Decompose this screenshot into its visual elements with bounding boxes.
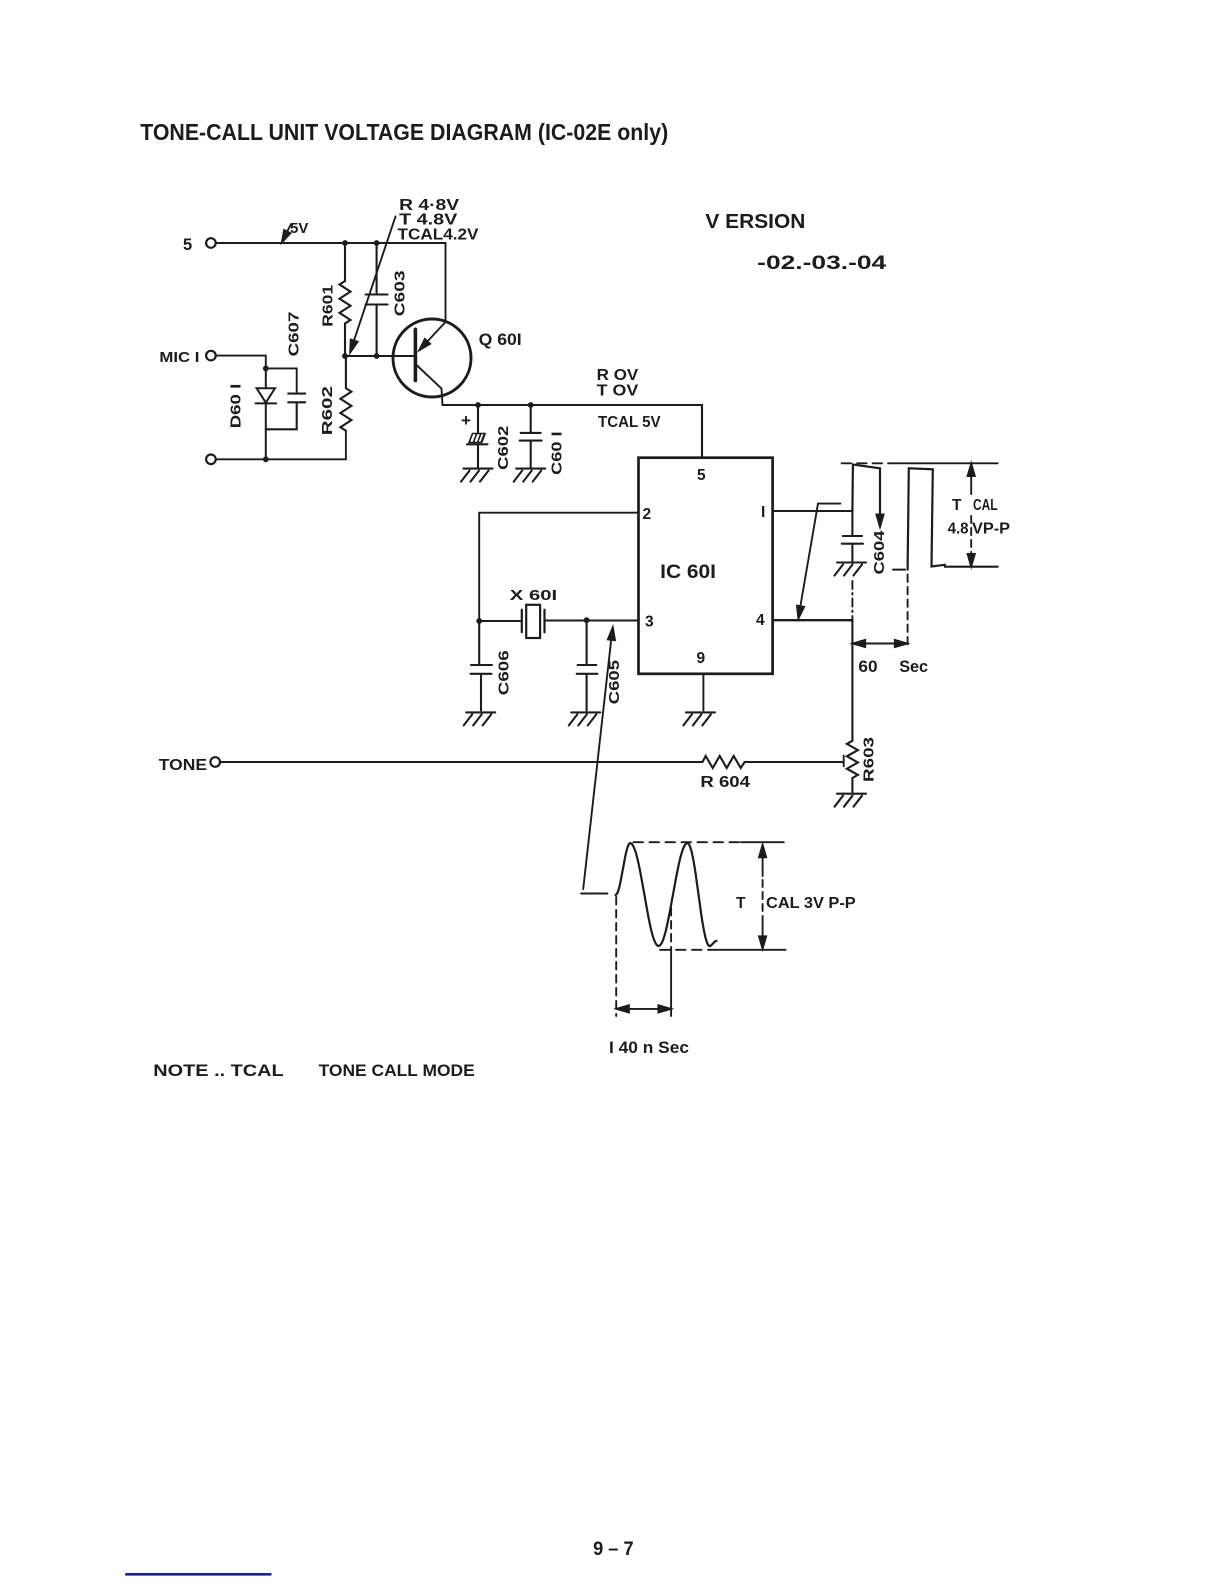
svg-text:5V: 5V	[290, 220, 308, 237]
ground C606	[464, 712, 496, 725]
svg-text:NOTE .. TCAL: NOTE .. TCAL	[153, 1062, 283, 1080]
ground C601	[514, 469, 546, 482]
svg-text:V ERSION: V ERSION	[705, 210, 805, 233]
svg-text:CAL: CAL	[973, 497, 998, 514]
ground C604	[835, 563, 867, 576]
node C601	[528, 402, 534, 408]
svg-text:MIC I: MIC I	[159, 349, 199, 366]
square wave low dash	[893, 569, 905, 571]
svg-text:C603: C603	[393, 271, 409, 317]
square wave top reference dashed	[842, 462, 895, 464]
arrow pointer to pin3 node	[583, 634, 612, 890]
svg-text:IC 60I: IC 60I	[660, 562, 716, 583]
resistor R602	[340, 356, 351, 431]
Q601 collector lead to output	[415, 364, 442, 405]
ground C602	[461, 469, 493, 482]
capacitor C604	[842, 511, 863, 561]
svg-text:2: 2	[643, 506, 652, 523]
capacitor C607	[266, 394, 305, 430]
measure arrow 140nSec	[620, 1008, 667, 1010]
svg-text:T: T	[736, 895, 746, 912]
Q601 base bar	[414, 329, 418, 380]
svg-text:TCAL4.2V: TCAL4.2V	[398, 227, 480, 244]
svg-text:5: 5	[697, 467, 706, 484]
sine bottom reference solid	[717, 949, 786, 951]
wire MIC1 to D601	[216, 356, 266, 369]
svg-text:R603: R603	[862, 737, 878, 782]
wire X601 left	[479, 620, 522, 622]
sine top reference dashed	[634, 841, 742, 843]
wire 5V rail	[216, 242, 446, 244]
dashed vertical 60sec right	[907, 574, 909, 648]
Q601 collector lead from 5V rail	[445, 243, 447, 322]
node C605 top	[584, 617, 590, 623]
svg-text:VP-P: VP-P	[972, 521, 1010, 538]
sine wave TCAL tone	[616, 843, 717, 946]
svg-text:TONE: TONE	[159, 757, 207, 774]
svg-text:I: I	[761, 504, 765, 521]
capacitor C606	[471, 621, 493, 711]
terminal MIC ground side	[206, 455, 216, 465]
svg-text:9 – 7: 9 – 7	[593, 1539, 634, 1560]
terminal TONE	[210, 757, 220, 767]
sine top reference solid	[741, 841, 784, 843]
capacitor C602 (electrolytic)	[477, 405, 479, 433]
wire pin2	[479, 513, 638, 621]
capacitor C603	[366, 243, 388, 356]
svg-text:R OV: R OV	[597, 367, 639, 384]
terminal MIC1	[206, 351, 216, 361]
svg-text:R601: R601	[321, 285, 337, 327]
arrow pointer to pin4	[800, 504, 841, 610]
wire X601 right to pin3	[545, 620, 639, 622]
ground R603	[835, 794, 867, 807]
node C603 top	[374, 240, 380, 246]
capacitor C605	[577, 620, 598, 710]
crystal X601	[522, 610, 545, 633]
square wave pulse 2	[908, 468, 998, 569]
node D601 top	[263, 366, 269, 372]
sine bottom reference dashed	[660, 949, 717, 951]
capacitor C601	[520, 405, 542, 468]
diode D601	[256, 368, 277, 459]
arrow pulse1 down to C604	[876, 515, 883, 528]
wire pin9 to ground	[702, 674, 704, 711]
wire pin1	[773, 510, 853, 512]
resistor R604	[703, 756, 745, 768]
svg-text:C606: C606	[497, 650, 513, 695]
resistor R601	[340, 243, 351, 356]
dash-dot net pin4 column	[851, 581, 853, 619]
svg-text:C607: C607	[287, 312, 303, 357]
node D601 bottom	[263, 456, 269, 462]
svg-text:R602: R602	[320, 386, 336, 435]
wire branch to C607	[266, 368, 297, 393]
svg-text:D60 I: D60 I	[229, 384, 245, 429]
svg-text:TONE-CALL UNIT VOLTAGE DIAGRAM: TONE-CALL UNIT VOLTAGE DIAGRAM (IC-02E o…	[140, 119, 668, 145]
svg-text:TONE CALL MODE: TONE CALL MODE	[319, 1062, 475, 1080]
dashed vertical 140n left	[615, 897, 617, 1016]
svg-text:5: 5	[183, 236, 192, 254]
svg-text:C602: C602	[496, 426, 512, 470]
svg-text:C605: C605	[607, 660, 623, 704]
arrow 5V pointer	[284, 224, 291, 238]
ground C605	[569, 712, 601, 725]
svg-text:C604: C604	[872, 531, 888, 575]
node base-R601	[342, 353, 348, 359]
wire R604 to R603	[745, 756, 844, 767]
measure arrow TCAL 4.8Vp-p	[970, 467, 972, 494]
wire output rail	[443, 405, 703, 458]
svg-text:X 60I: X 60I	[510, 587, 557, 604]
measure arrow TCAL 3Vp-p	[762, 848, 764, 876]
svg-text:T OV: T OV	[597, 383, 639, 400]
node C602	[475, 402, 481, 408]
blue underline mark bottom-left	[126, 1573, 270, 1576]
ground pin9	[683, 712, 715, 725]
square wave top reference solid	[894, 462, 997, 464]
terminal 5	[206, 238, 216, 248]
svg-text:9: 9	[697, 650, 706, 667]
vertical 140n right	[670, 908, 672, 950]
transistor Q601	[393, 319, 471, 397]
resistor R603	[847, 741, 858, 792]
svg-text:Sec: Sec	[899, 658, 928, 676]
square wave pulse 1	[852, 465, 880, 520]
svg-text:3: 3	[645, 614, 654, 631]
wire pin4	[773, 619, 853, 621]
arrow pointer to base node	[352, 217, 396, 347]
wire pin4 column solid	[851, 620, 853, 741]
svg-text:Q 60I: Q 60I	[479, 331, 522, 349]
svg-text:T: T	[952, 497, 962, 514]
svg-text:R 604: R 604	[700, 774, 750, 791]
wire base node	[345, 355, 414, 357]
wire TONE	[220, 761, 702, 763]
node base-C603	[374, 353, 380, 359]
svg-text:TCAL 5V: TCAL 5V	[598, 414, 661, 431]
svg-text:4.8: 4.8	[948, 521, 969, 538]
svg-text:I 40 n Sec: I 40 n Sec	[609, 1039, 689, 1057]
svg-text:-02.-03.-04: -02.-03.-04	[757, 252, 886, 274]
node X601 left	[476, 618, 482, 624]
svg-text:+: +	[461, 411, 471, 430]
Q601 emitter arrow (PNP)	[425, 322, 446, 345]
wire bottom	[216, 431, 346, 460]
IC601 box	[639, 458, 773, 674]
svg-text:CAL 3V P-P: CAL 3V P-P	[766, 895, 856, 912]
pointer foot	[581, 893, 607, 895]
svg-text:60: 60	[858, 658, 877, 676]
svg-text:C60 I: C60 I	[550, 432, 566, 475]
measure arrow 60 Sec	[857, 643, 904, 645]
node R601 top	[342, 240, 348, 246]
svg-text:4: 4	[756, 612, 765, 629]
